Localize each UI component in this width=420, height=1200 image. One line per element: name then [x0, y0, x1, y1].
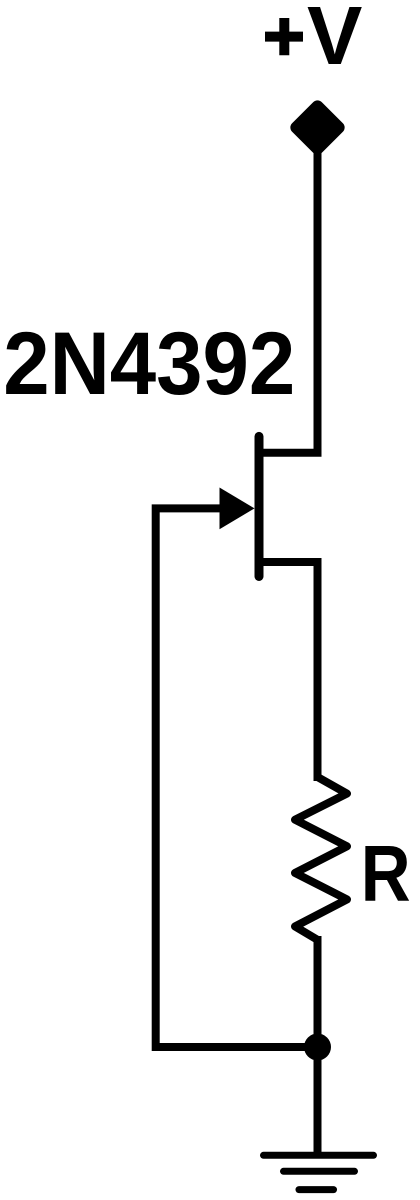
- resistor R zigzag: [295, 777, 347, 940]
- svg-text:R: R: [361, 828, 411, 918]
- wire source horizontal + down to resistor: [259, 562, 318, 781]
- transistor Q1 JFET channel bar: [255, 436, 264, 576]
- transistor Q1 gate arrowhead: [220, 488, 255, 530]
- wire gate feedback: gate horizontal, left vertical, bottom horizontal: [156, 508, 310, 1047]
- junction node dot: [304, 1034, 331, 1061]
- svg-text:2N4392: 2N4392: [3, 315, 295, 414]
- node +V label: plus sign: [265, 18, 303, 55]
- wire drain vertical + drain horizontal: [259, 140, 318, 453]
- wire resistor to junction to ground: [314, 936, 322, 1155]
- svg-text:V: V: [307, 0, 362, 82]
- power terminal diamond: [288, 98, 347, 157]
- ground symbol: [264, 1155, 374, 1189]
